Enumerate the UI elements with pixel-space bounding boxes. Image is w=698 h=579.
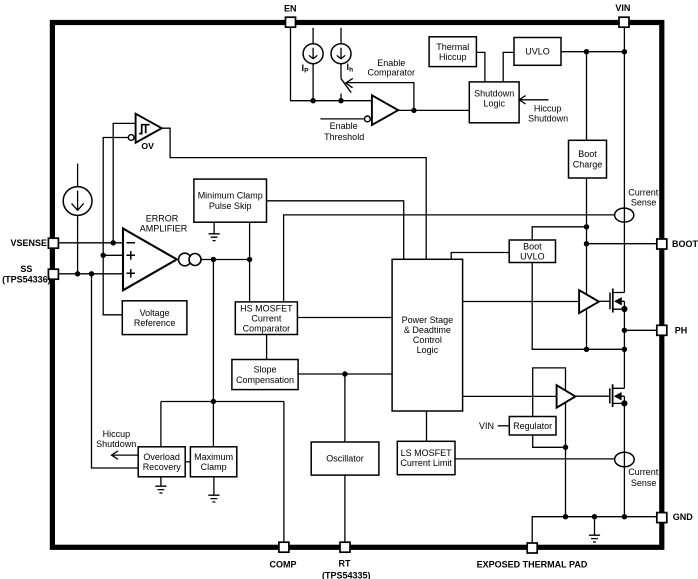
arrowhead hiccup shutdown left <box>112 451 119 459</box>
junction driver return/GND <box>563 514 568 519</box>
wire Thermal Hiccup to Shutdown Logic <box>476 52 485 82</box>
wire LS source down to GND rail <box>623 396 625 517</box>
wire Boot UVLO to Power Stage <box>451 253 509 260</box>
svg-text:Shutdown: Shutdown <box>474 88 514 98</box>
op-amp U1 enable comparator <box>365 95 399 125</box>
block Thermal Hiccup <box>429 37 476 67</box>
svg-text:Hiccup: Hiccup <box>534 104 562 114</box>
wire comparator output to Shutdown Logic <box>398 109 469 111</box>
junction HS source <box>621 306 627 312</box>
svg-text:OV: OV <box>141 141 154 151</box>
svg-text:GND: GND <box>673 512 694 522</box>
svg-text:Current: Current <box>628 188 659 198</box>
junction PH node <box>622 328 627 333</box>
wire OV output to Power Stage <box>162 128 427 259</box>
wire Minimum Clamp to Power Stage <box>267 201 404 259</box>
wire switch to enable rail <box>340 94 342 101</box>
current source I2 (Ih) <box>331 44 351 64</box>
wire PH to LS drain <box>623 349 625 388</box>
svg-text:Reference: Reference <box>134 318 176 328</box>
current sense (high side) sensor oval <box>615 208 634 222</box>
op-amp U2 OV comparator <box>128 114 161 143</box>
wire regulator rail (through LS driver) <box>533 368 566 517</box>
ground internal <box>589 517 600 542</box>
svg-text:Enable: Enable <box>330 121 358 131</box>
pin BOOT <box>657 239 667 249</box>
wire VREF box to VREF net <box>103 255 122 314</box>
block UVLO <box>514 38 561 66</box>
ground below Minimum Clamp <box>209 222 220 240</box>
svg-text:VIN: VIN <box>479 421 494 431</box>
junction internal gnd <box>592 514 597 519</box>
wire Ih below circle <box>340 64 342 79</box>
wire SS charge source to SS line <box>77 215 79 273</box>
svg-text:Charge: Charge <box>573 159 603 169</box>
wire rail to COMP pin <box>283 402 285 543</box>
ground below Overload Recovery <box>155 477 166 493</box>
wire oscillator to slope rail <box>344 374 346 442</box>
svg-text:Enable: Enable <box>377 58 405 68</box>
svg-text:Current: Current <box>628 467 659 477</box>
wire Boot UVLO bottom to PH net <box>532 263 624 350</box>
pin EN <box>286 17 296 27</box>
svg-text:EXPOSED THERMAL PAD: EXPOSED THERMAL PAD <box>477 559 588 569</box>
wire Power Stage to LS driver <box>463 395 557 397</box>
junction VREF/EA plus <box>101 253 106 258</box>
svg-text:Voltage: Voltage <box>140 308 170 318</box>
svg-text:VSENSE: VSENSE <box>10 238 47 248</box>
wire PH to pin <box>624 329 656 331</box>
junction comparator output node <box>411 108 416 113</box>
wire HS source down to PH <box>623 301 625 349</box>
svg-text:& Deadtime: & Deadtime <box>404 325 451 335</box>
svg-text:Regulator: Regulator <box>513 421 552 431</box>
wire HS comparator to Slope Compensation <box>266 335 268 360</box>
junction LS sense/GND <box>622 514 627 519</box>
transistor Q1 HS MOSFET <box>610 289 624 313</box>
wire SS charge source stub <box>77 164 79 187</box>
wire hysteresis control from comparator output <box>347 83 414 111</box>
svg-text:Current Limit: Current Limit <box>400 458 452 468</box>
wire link overload-maxclamp <box>185 461 190 463</box>
wire EA out down to Maximum Clamp <box>212 260 214 447</box>
svg-text:HS MOSFET: HS MOSFET <box>240 303 293 313</box>
block LS MOSFET Current Limit <box>397 441 455 474</box>
wire hiccup shutdown into Shutdown Logic <box>519 99 548 101</box>
svg-text:Clamp: Clamp <box>201 462 227 472</box>
wire rail to Overload Recovery <box>160 402 162 447</box>
svg-text:Pulse Skip: Pulse Skip <box>209 201 252 211</box>
arrowhead hiccup shutdown <box>519 96 526 104</box>
wire SS pin to EA plus2 <box>58 273 123 275</box>
svg-text:COMP: COMP <box>270 559 297 569</box>
pin VIN <box>619 17 629 27</box>
wire regulator return <box>533 435 566 447</box>
wire hiccup shutdown arrow <box>113 454 139 456</box>
svg-text:Threshold: Threshold <box>324 132 364 142</box>
pin PH <box>657 325 667 335</box>
IC boundary (thick border) <box>52 23 661 548</box>
wire VIN dash to regulator <box>498 425 510 427</box>
buffer U4 HS gate driver <box>579 290 599 313</box>
wire VSENSE to OV input <box>113 123 135 242</box>
switch S1 lever <box>341 78 351 92</box>
ground below Maximum Clamp <box>208 477 219 502</box>
pin RT <box>340 542 350 552</box>
svg-text:RT: RT <box>339 558 351 568</box>
svg-text:UVLO: UVLO <box>525 47 550 57</box>
block Maximum Clamp <box>190 447 236 477</box>
block Voltage Reference <box>122 301 187 335</box>
gm output stage circles <box>179 253 192 266</box>
svg-text:Control: Control <box>413 335 442 345</box>
wire Power Stage to LS current limit <box>426 411 428 441</box>
junction regulator return <box>563 445 568 450</box>
svg-text:Current: Current <box>251 313 282 323</box>
wire Minimum Clamp to EA out / HS comparator <box>249 222 251 302</box>
svg-text:(TPS54336): (TPS54336) <box>2 274 51 284</box>
wire VSENSE pin to EA inverting <box>58 242 123 244</box>
transistor Q2 LS MOSFET <box>610 384 625 407</box>
junction Ih/enable rail <box>338 98 343 103</box>
wire Boot Charge feed <box>586 52 588 141</box>
pin SS <box>48 269 58 279</box>
wire GND rail <box>532 517 656 543</box>
svg-text:SS: SS <box>20 264 32 274</box>
svg-text:BOOT: BOOT <box>672 239 698 249</box>
svg-text:Logic: Logic <box>417 345 439 355</box>
svg-text:Power Stage: Power Stage <box>402 315 454 325</box>
wire Power Stage to HS driver <box>463 301 579 303</box>
svg-text:LS MOSFET: LS MOSFET <box>401 448 453 458</box>
svg-text:Comparator: Comparator <box>368 68 416 78</box>
wire EA output <box>201 259 250 261</box>
wire HS current sense signal <box>284 215 615 302</box>
svg-text:UVLO: UVLO <box>520 252 545 262</box>
junction boot net/BOOT wire <box>584 241 589 246</box>
block Shutdown Logic <box>469 82 519 123</box>
svg-text:Thermal: Thermal <box>436 42 469 52</box>
junction LS source <box>621 400 627 406</box>
wire LS gate <box>575 395 609 397</box>
pin VSENSE <box>48 238 58 248</box>
block Overload Recovery <box>138 447 185 477</box>
junction slope/oscillator <box>342 371 347 376</box>
junction PH/LS drain <box>622 347 627 352</box>
svg-text:Hiccup: Hiccup <box>103 429 131 439</box>
svg-text:AMPLIFIER: AMPLIFIER <box>140 224 188 234</box>
block Minimum Clamp Pulse Skip <box>194 179 267 222</box>
junction VSENSE/OV branch <box>111 240 116 245</box>
block Slope Compensation <box>232 360 298 390</box>
wire hiccup-COMP rail <box>161 401 284 403</box>
current source I1 (Ip) <box>303 44 323 64</box>
pin COMP <box>279 542 289 552</box>
svg-text:VIN: VIN <box>615 3 630 13</box>
op-amp U3 error amplifier <box>123 229 177 291</box>
wire UVLO to Shutdown Logic <box>503 52 514 82</box>
svg-text:PH: PH <box>675 326 688 336</box>
wire HS comparator to Power Stage <box>297 317 392 319</box>
svg-text:Sense: Sense <box>631 478 657 488</box>
wire EN pin to enable rail <box>291 27 372 101</box>
wire boot net to Boot UVLO <box>532 227 586 240</box>
junction SS/current source <box>75 271 80 276</box>
svg-text:Minimum Clamp: Minimum Clamp <box>198 191 263 201</box>
wire boot net down (through HS driver) <box>586 178 588 349</box>
wire VIN drop to HS drain <box>623 27 625 293</box>
svg-text:Logic: Logic <box>483 99 505 109</box>
svg-text:Boot: Boot <box>523 241 542 251</box>
block Oscillator <box>311 442 379 475</box>
wire LS current limit to current sense <box>455 458 615 460</box>
wire SS to hiccup recovery <box>92 274 139 468</box>
block Boot UVLO <box>509 240 555 263</box>
svg-text:Overload: Overload <box>143 452 180 462</box>
svg-text:Boot: Boot <box>578 149 597 159</box>
current sense (low side) sensor oval <box>615 452 635 466</box>
pin GND <box>657 513 667 523</box>
wire HS gate <box>599 300 610 302</box>
junction UVLO wire/VIN rail <box>622 49 627 54</box>
wire Oscillator to RT pin <box>344 475 346 542</box>
wire Ih stub <box>340 28 342 44</box>
svg-text:Slope: Slope <box>253 365 276 375</box>
pin EXPOSED THERMAL PAD <box>527 543 537 553</box>
junction SS/hiccup branch <box>89 271 94 276</box>
svg-text:Shutdown: Shutdown <box>96 439 136 449</box>
arrowhead on hysteresis control <box>346 78 353 87</box>
junction EA out/minclamp <box>247 257 252 262</box>
wire Slope Compensation to Power Stage <box>298 373 392 375</box>
junction boot net upper <box>584 224 589 229</box>
junction EA out/down <box>211 257 216 262</box>
wire boot net to BOOT pin <box>587 243 657 245</box>
svg-text:Recovery: Recovery <box>143 462 182 472</box>
block HS MOSFET Current Comparator <box>235 302 297 335</box>
wire VREF to EA plus <box>103 254 123 256</box>
current source I3 (SS charge) <box>63 187 92 216</box>
svg-text:EN: EN <box>284 3 297 13</box>
svg-text:Comparator: Comparator <box>243 323 291 333</box>
svg-text:Oscillator: Oscillator <box>326 454 364 464</box>
junction Ip/enable rail <box>310 98 315 103</box>
wire UVLO to VIN rail <box>561 51 624 53</box>
svg-text:ERROR: ERROR <box>146 213 179 223</box>
wire Ip to enable rail <box>312 64 314 101</box>
junction boot refresh/PH <box>584 347 589 352</box>
wire Ip stub and drop <box>312 28 314 44</box>
wire enable threshold input <box>320 118 364 120</box>
svg-text:Compensation: Compensation <box>236 375 294 385</box>
wire VREF to OV inverting input <box>103 138 128 256</box>
svg-text:Shutdown: Shutdown <box>528 113 568 123</box>
svg-text:Maximum: Maximum <box>194 452 233 462</box>
svg-text:Sense: Sense <box>631 197 657 207</box>
svg-text:Hiccup: Hiccup <box>439 52 467 62</box>
svg-text:(TPS54335): (TPS54335) <box>322 571 371 579</box>
junction boot charge tap <box>584 49 589 54</box>
block Regulator <box>509 417 556 436</box>
buffer U5 LS gate driver <box>557 385 576 408</box>
block Power Stage & Deadtime Control Logic <box>392 259 463 411</box>
block Boot Charge <box>569 140 607 178</box>
junction COMP tee <box>211 399 216 404</box>
